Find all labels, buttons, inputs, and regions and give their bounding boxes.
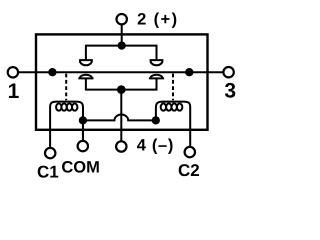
inductor L2 — [156, 102, 190, 147]
wire: line terminal1 to terminal3 — [18, 71, 223, 73]
svg-text:C1: C1 — [37, 163, 59, 182]
terminal 1 — [8, 67, 18, 77]
wire: GDT common connector — [86, 79, 157, 90]
svg-text:3: 3 — [224, 79, 236, 102]
inductor L1 — [50, 102, 83, 148]
GDT G1 top electrode — [79, 60, 93, 65]
junction dot GDT common — [117, 85, 126, 94]
wire: COM lead — [82, 120, 84, 141]
svg-text:2 (+): 2 (+) — [137, 11, 178, 29]
terminal C2 — [185, 147, 195, 157]
dashed link right — [172, 74, 174, 101]
terminal COM — [78, 141, 88, 151]
svg-text:C2: C2 — [178, 161, 200, 180]
svg-text:4 (–): 4 (–) — [137, 137, 174, 155]
junction dot bottom left — [79, 116, 87, 124]
GDT G2 top electrode — [150, 60, 164, 65]
junction dot bottom right — [152, 116, 160, 124]
svg-text:COM: COM — [61, 158, 100, 176]
GDT G2 bottom electrode — [149, 75, 164, 79]
junction dot wire right — [185, 68, 193, 76]
wire: center lead to terminal 4 — [120, 90, 122, 142]
dashed link left — [65, 74, 67, 101]
junction dot wire left — [48, 68, 56, 76]
wire: terminal 2 lead — [121, 24, 123, 45]
terminal 2 — [117, 14, 127, 24]
svg-text:1: 1 — [8, 80, 20, 103]
terminal 3 — [223, 67, 233, 77]
junction dot bus/terminal2 — [118, 41, 126, 49]
GDT G1 bottom electrode — [78, 75, 93, 79]
terminal 4 — [116, 141, 126, 151]
wire: top bus to GDT tops — [86, 46, 157, 60]
terminal C1 — [45, 148, 55, 158]
enclosure box — [36, 34, 208, 129]
wire: bottom connector with hop over center lead — [83, 115, 156, 121]
